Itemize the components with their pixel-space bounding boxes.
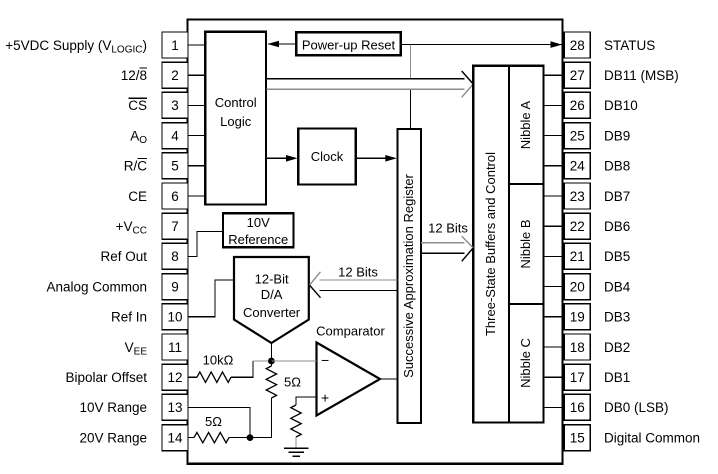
- pin 14 box: [162, 425, 188, 451]
- wire R3 to node B: [229, 437, 250, 439]
- svg-text:1: 1: [171, 38, 179, 53]
- svg-text:28: 28: [570, 38, 585, 53]
- svg-text:5Ω: 5Ω: [284, 375, 301, 390]
- pin 22 box: [564, 213, 590, 239]
- svg-text:10V Range: 10V Range: [79, 400, 147, 415]
- svg-text:16: 16: [570, 400, 585, 415]
- wire+arrow Control Logic to Clock: [267, 157, 288, 159]
- svg-text:Clock: Clock: [311, 149, 344, 164]
- wire Nibble to pin 21: [544, 255, 565, 257]
- wire pin 1 to Control Logic: [188, 44, 205, 46]
- bus arrow Control Logic to Three-State Buffers: [267, 78, 465, 80]
- svg-text:DB7: DB7: [604, 189, 630, 204]
- svg-text:Ref In: Ref In: [111, 310, 147, 325]
- svg-text:CS: CS: [128, 98, 147, 113]
- pin 7 box: [162, 213, 188, 239]
- block Successive Approximation Register: [398, 129, 422, 423]
- block Nibble B: [509, 184, 544, 304]
- svg-text:DB1: DB1: [604, 370, 630, 385]
- wire Nibble to pin 20: [544, 286, 565, 288]
- svg-text:Nibble B: Nibble B: [518, 219, 533, 268]
- pin 24 box: [564, 153, 590, 179]
- wire node A to Comparator minus input: [271, 360, 316, 362]
- svg-text:Reference: Reference: [228, 232, 288, 247]
- IC package outline: [188, 19, 563, 463]
- pin 25 box: [564, 123, 590, 149]
- ground symbol: [284, 447, 309, 449]
- wire pin 8 Ref Out to 10V Reference: [188, 232, 223, 257]
- svg-text:10kΩ: 10kΩ: [203, 353, 234, 368]
- block Control Logic U-CL: [205, 32, 266, 205]
- svg-text:Digital Common: Digital Common: [604, 430, 700, 445]
- pin 10 box: [162, 304, 188, 330]
- svg-text:5Ω: 5Ω: [205, 414, 222, 429]
- pin 16 box: [564, 394, 590, 420]
- svg-text:D/A: D/A: [261, 287, 283, 302]
- svg-text:Nibble A: Nibble A: [518, 100, 533, 149]
- svg-text:4: 4: [171, 128, 179, 143]
- wire DAC output to node A: [270, 343, 272, 361]
- block Three-State Buffers and Control: [473, 66, 509, 423]
- svg-text:+: +: [321, 390, 329, 406]
- block Clock: [298, 129, 356, 185]
- svg-text:12/8: 12/8: [121, 68, 147, 83]
- pin 6 box: [162, 183, 188, 209]
- block Power-up Reset: [296, 32, 401, 55]
- block Nibble A: [509, 66, 544, 184]
- svg-text:13: 13: [167, 400, 182, 415]
- pin 13 box: [162, 394, 188, 420]
- wire pin 14 to R3: [188, 437, 194, 439]
- wire pin 13 10V Range to node B: [188, 407, 250, 437]
- pin 18 box: [564, 334, 590, 360]
- pin 15 box: [564, 425, 590, 451]
- wire Power-up Reset to STATUS pin 28: [401, 44, 562, 46]
- svg-text:21: 21: [570, 249, 585, 264]
- wire Nibble to pin 16: [544, 406, 565, 408]
- svg-text:−: −: [321, 352, 329, 368]
- svg-text:Comparator: Comparator: [316, 324, 385, 339]
- svg-text:DB8: DB8: [604, 159, 630, 174]
- wire+arrow Clock to SAR: [356, 157, 386, 159]
- wire pin 6 to Control Logic: [188, 195, 205, 197]
- node B junction dot: [247, 434, 254, 441]
- pin 1 box: [162, 32, 188, 58]
- wire Nibble to pin 22: [544, 225, 565, 227]
- svg-text:8: 8: [171, 249, 179, 264]
- svg-text:R/C: R/C: [124, 159, 148, 174]
- svg-text:20: 20: [570, 279, 585, 294]
- wire R4 to ground: [295, 437, 297, 448]
- svg-text:Converter: Converter: [243, 305, 301, 320]
- pin 17 box: [564, 364, 590, 390]
- op-amp Comparator: [317, 343, 381, 416]
- wire+arrow Power-up Reset to Control Logic: [268, 43, 296, 45]
- wire pin 4 to Control Logic: [188, 135, 205, 137]
- pin 5 box: [162, 153, 188, 179]
- svg-text:DB9: DB9: [604, 128, 630, 143]
- svg-text:24: 24: [570, 159, 586, 174]
- wire pin 5 to Control Logic: [188, 165, 205, 167]
- svg-text:CE: CE: [128, 189, 147, 204]
- svg-text:15: 15: [570, 430, 585, 445]
- svg-text:22: 22: [570, 219, 585, 234]
- svg-text:12 Bits: 12 Bits: [428, 221, 468, 236]
- svg-text:DB6: DB6: [604, 219, 630, 234]
- svg-text:25: 25: [570, 128, 585, 143]
- pin 2 box: [162, 62, 188, 88]
- svg-text:DB4: DB4: [604, 279, 631, 294]
- wire pin 10 Ref In to DAC: [188, 280, 234, 317]
- wire node B to R2 bottom: [250, 398, 271, 438]
- svg-text:19: 19: [570, 310, 585, 325]
- svg-text:9: 9: [171, 279, 179, 294]
- svg-text:12-Bit: 12-Bit: [255, 272, 289, 287]
- svg-text:10: 10: [167, 310, 182, 325]
- svg-text:14: 14: [167, 430, 183, 445]
- svg-text:DB10: DB10: [604, 98, 638, 113]
- wire Comparator plus input: [296, 397, 317, 405]
- wire Nibble to pin 24: [544, 165, 565, 167]
- block Nibble C: [509, 304, 544, 423]
- pin 28 box: [564, 32, 590, 58]
- svg-text:26: 26: [570, 98, 585, 113]
- svg-text:Nibble C: Nibble C: [518, 338, 533, 388]
- pin 26 box: [564, 92, 590, 118]
- block 12-Bit D/A Converter (pentagon): [234, 257, 309, 343]
- svg-text:DB5: DB5: [604, 249, 630, 264]
- svg-text:DB3: DB3: [604, 310, 630, 325]
- svg-text:7: 7: [171, 219, 179, 234]
- svg-text:DB11 (MSB): DB11 (MSB): [604, 68, 679, 83]
- svg-text:12: 12: [167, 370, 182, 385]
- svg-text:3: 3: [171, 98, 179, 113]
- pin 19 box: [564, 304, 590, 330]
- wire Nibble to pin 25: [544, 135, 565, 137]
- block 10V Reference: [223, 213, 293, 247]
- svg-text:Analog Common: Analog Common: [46, 279, 147, 294]
- svg-text:Control: Control: [215, 95, 257, 110]
- wire Nibble to pin 26: [544, 104, 565, 106]
- pin 20 box: [564, 274, 590, 300]
- svg-text:Ref Out: Ref Out: [100, 249, 147, 264]
- wire R1 to node A: [231, 361, 253, 377]
- pin 4 box: [162, 123, 188, 149]
- svg-text:27: 27: [570, 68, 585, 83]
- node line SAR status riser: [409, 45, 411, 79]
- wire Comparator output to SAR: [380, 378, 398, 380]
- pin 21 box: [564, 243, 590, 269]
- wire pin 3 to Control Logic: [188, 104, 205, 106]
- pin 8 box: [162, 243, 188, 269]
- svg-text:STATUS: STATUS: [604, 38, 655, 53]
- pin 11 box: [162, 334, 188, 360]
- svg-text:DB2: DB2: [604, 340, 630, 355]
- svg-text:17: 17: [570, 370, 585, 385]
- svg-text:Logic: Logic: [220, 114, 252, 129]
- svg-text:11: 11: [168, 340, 182, 355]
- svg-text:12 Bits: 12 Bits: [338, 265, 378, 280]
- wire Nibble to pin 17: [544, 376, 565, 378]
- svg-text:2: 2: [171, 68, 179, 83]
- pin 3 box: [162, 92, 188, 118]
- svg-text:Power-up Reset: Power-up Reset: [302, 38, 396, 53]
- pin 12 box: [162, 364, 188, 390]
- wire Nibble to pin 27: [544, 74, 565, 76]
- wire pin 12 Bipolar Offset to R1: [188, 376, 197, 378]
- wire Nibble to pin 18: [544, 346, 565, 348]
- svg-text:Three-State Buffers and Contro: Three-State Buffers and Control: [483, 152, 498, 336]
- svg-text:23: 23: [570, 189, 585, 204]
- svg-text:Bipolar Offset: Bipolar Offset: [65, 370, 147, 385]
- wire Nibble to pin 23: [544, 195, 565, 197]
- pin 23 box: [564, 183, 590, 209]
- wire pin 2 to Control Logic: [188, 74, 205, 76]
- svg-text:DB0 (LSB): DB0 (LSB): [604, 400, 669, 415]
- pin 9 box: [162, 274, 188, 300]
- svg-text:6: 6: [171, 189, 179, 204]
- svg-text:18: 18: [570, 340, 585, 355]
- pin 27 box: [564, 62, 590, 88]
- svg-text:5: 5: [171, 159, 179, 174]
- svg-text:10V: 10V: [247, 215, 270, 230]
- svg-text:Successive Approximation Regis: Successive Approximation Register: [401, 173, 416, 377]
- node A junction dot: [268, 358, 275, 365]
- wire Nibble to pin 19: [544, 316, 565, 318]
- svg-text:20V Range: 20V Range: [79, 430, 147, 445]
